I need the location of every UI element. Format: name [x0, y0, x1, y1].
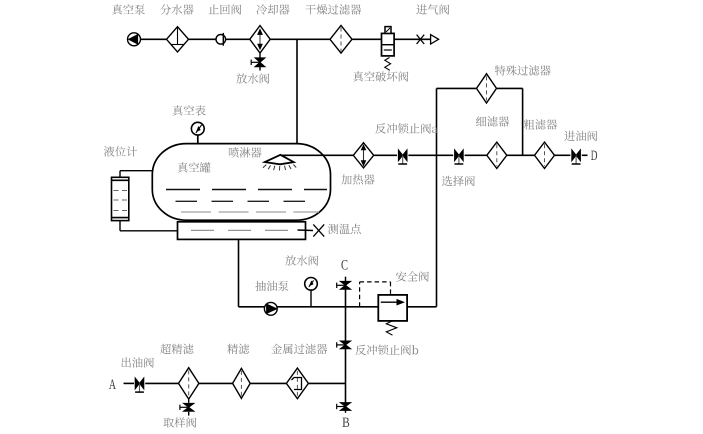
pilot dashed line to safety valve — [359, 282, 361, 307]
label 抽油泵 — [255, 281, 288, 291]
label 特殊过滤器 — [495, 65, 551, 75]
wire cooler to drain valve — [259, 53, 261, 58]
backflush lock valve b 反冲锁止阀b — [340, 341, 350, 345]
fine filter 精滤 — [233, 368, 251, 398]
vacuum pump 真空泵 — [128, 33, 141, 46]
wire safety valve to riser — [407, 306, 436, 308]
vacuum gauge 真空表 — [191, 122, 204, 135]
label 分水器 — [160, 4, 193, 14]
drying filter 干燥过滤器 — [330, 26, 352, 54]
backflush lock valve a 反冲锁止阀a — [398, 150, 402, 161]
wire selector valve to fine filter — [465, 154, 487, 156]
wire ultra fine to fine filter — [199, 382, 233, 384]
wire C down through pump line to valve b — [345, 285, 347, 341]
label 真空破坏阀 — [353, 71, 408, 82]
air inlet valve 进气阀 — [417, 35, 425, 44]
wire valve b to bottom junction — [345, 345, 347, 403]
special filter 特殊过滤器 — [477, 74, 497, 103]
wire valve a to junction — [408, 154, 436, 156]
label 加热器 — [341, 174, 374, 184]
water separator 分水器 — [167, 27, 189, 52]
bottom collector box — [178, 222, 306, 240]
wire coarse filter to inlet oil valve — [555, 154, 571, 156]
wire special filter branch top — [437, 87, 477, 89]
wire separator to check valve — [189, 38, 217, 40]
wire from A — [124, 382, 135, 384]
label 反冲锁止阀a — [375, 123, 437, 133]
wire special filter down leg — [522, 88, 524, 155]
label 反冲锁止阀b — [355, 345, 418, 356]
node A — [109, 380, 116, 390]
label 取样阀 — [163, 417, 196, 427]
node D — [591, 151, 597, 160]
wire check valve to cooler — [226, 38, 250, 40]
valve B — [340, 403, 350, 407]
wire cooler to drying filter — [270, 38, 330, 40]
temperature point 测温点 — [298, 229, 314, 232]
label 安全阀 — [396, 271, 429, 281]
cooler 冷却器 — [250, 26, 270, 54]
wire metal filter to vline — [308, 382, 345, 384]
label 进气阀 — [416, 4, 449, 14]
label 超精滤 — [160, 344, 193, 354]
wire pump line — [239, 306, 379, 308]
label 金属过滤器 — [271, 344, 327, 354]
check valve 止回阀 — [216, 35, 226, 45]
wire tank bottom down pipe — [238, 239, 240, 306]
label 冷却器 — [257, 4, 290, 14]
gauge 放水阀 — [305, 278, 318, 291]
label 细滤器 — [476, 116, 509, 126]
wire outlet valve to ultra fine filter — [145, 382, 178, 384]
node junction riser — [436, 88, 438, 155]
label 测温点 — [328, 224, 361, 234]
label 出油阀 — [122, 357, 154, 367]
oil level dashes in tank — [166, 189, 327, 191]
label 精滤 — [227, 344, 249, 354]
sprayer 喷淋器 — [281, 154, 353, 156]
wire to D — [582, 154, 588, 156]
ultra fine filter 超精滤 — [179, 368, 199, 399]
label 真空罐 — [178, 162, 211, 173]
oil inlet valve 进油阀 — [572, 150, 576, 161]
safety valve 安全阀 — [378, 295, 407, 321]
label 止回阀 — [209, 4, 242, 14]
wire vacuum break valve to air inlet valve — [394, 38, 431, 40]
arrow air outlet — [431, 35, 439, 44]
wire pump to separator — [141, 38, 167, 40]
spring of safety valve — [386, 321, 397, 335]
wire heater to valve a — [374, 154, 397, 156]
drain valve 放水阀 (top) — [255, 58, 265, 62]
wire fine filter to coarse filter — [507, 154, 535, 156]
label 真空泵 — [112, 4, 145, 15]
riser from selector junction down — [436, 155, 438, 306]
node junction riser to tank — [296, 39, 298, 144]
node C — [341, 260, 347, 270]
valve C — [345, 277, 347, 282]
metal filter 金属过滤器 — [286, 368, 308, 399]
label 放水阀 — [236, 73, 269, 83]
node B — [342, 418, 349, 427]
label 放水阀2 — [285, 255, 318, 265]
sampling valve 取样阀 — [188, 399, 190, 403]
selector valve 选择阀 — [437, 154, 454, 156]
wire fine filter to metal filter — [250, 382, 286, 384]
label 液位计 — [104, 146, 137, 157]
oil outlet valve 出油阀 — [135, 378, 139, 389]
label 粗滤器 — [524, 119, 557, 129]
heater 加热器 — [353, 143, 373, 168]
wire drying filter to vacuum break valve — [352, 38, 382, 40]
label 喷淋器 — [229, 147, 262, 157]
fine filter 细滤器 — [487, 142, 507, 168]
label 进油阀 — [564, 131, 597, 141]
vacuum break valve 真空破坏阀 — [382, 33, 395, 56]
label 真空表 — [173, 105, 206, 116]
coarse filter 粗滤器 — [535, 142, 555, 168]
spring of vacuum break valve — [385, 58, 391, 71]
label 干燥过滤器 — [306, 4, 362, 14]
oil pump 抽油泵 — [264, 302, 277, 315]
level gauge 液位计 — [119, 171, 121, 178]
vacuum tank 真空罐 — [152, 144, 330, 221]
label 选择阀 — [442, 176, 475, 186]
